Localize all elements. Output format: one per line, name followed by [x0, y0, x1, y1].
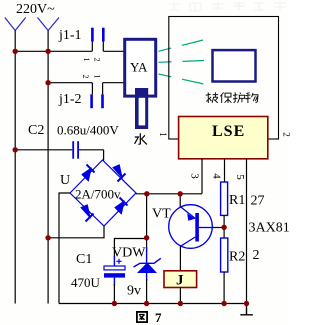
relay contact j1-1 plates — [91, 28, 105, 42]
resistor R2 — [221, 238, 228, 272]
wire LSE pin 4 — [224, 159, 226, 182]
svg-text:R1: R1 — [229, 193, 245, 208]
node + rail / VT emitter — [178, 191, 183, 196]
bridge diode bottom-right — [115, 198, 128, 215]
bridge diode bottom-left — [81, 205, 94, 222]
node right rail / j1-1 wire — [45, 49, 50, 54]
wire left AC rail x=15 — [14, 31, 16, 304]
svg-text:4: 4 — [210, 173, 222, 179]
svg-text:0.68u/400V: 0.68u/400V — [57, 123, 119, 138]
svg-text:J: J — [176, 273, 184, 289]
node right rail / AC bottom wire — [45, 235, 50, 240]
node J / ground rail — [178, 301, 183, 306]
zener diode VDW — [134, 247, 161, 281]
wire zener bottom — [146, 279, 148, 304]
svg-text:VT: VT — [152, 207, 171, 222]
bridge rectifier U diamond — [70, 160, 136, 226]
node VT base / divider — [221, 225, 226, 230]
AC plug prong left — [5, 18, 26, 31]
wire j1-2 row — [48, 83, 123, 95]
svg-text:LSE: LSE — [212, 123, 245, 140]
svg-text:j1-2: j1-2 — [58, 92, 82, 107]
svg-text:3: 3 — [188, 173, 200, 179]
svg-text:R2: R2 — [229, 250, 245, 265]
svg-text:2: 2 — [281, 132, 291, 137]
wire right AC rail x=48 — [47, 31, 49, 304]
wire bridge right corner (+ rail) — [136, 193, 202, 195]
node zener / ground rail — [144, 301, 149, 306]
label 水 (water) — [135, 133, 147, 144]
svg-text:YA: YA — [130, 60, 148, 75]
svg-text:U: U — [60, 173, 70, 188]
svg-text:470U: 470U — [71, 275, 101, 290]
caption 图 7 — [137, 310, 162, 325]
wire j1-1 row — [15, 42, 123, 52]
wire bridge left corner to ground rail — [59, 193, 70, 304]
wire R2 bottom — [223, 272, 225, 304]
ground symbol — [240, 304, 253, 315]
svg-text:1: 1 — [93, 75, 102, 79]
relay contact j1-2 plates — [90, 94, 103, 108]
AC plug prong right — [38, 18, 60, 31]
transistor VT — [169, 205, 214, 249]
node R2 / ground rail — [221, 301, 226, 306]
solenoid valve YA box — [125, 39, 156, 96]
svg-text:C2: C2 — [28, 123, 44, 138]
resistor R1 — [221, 182, 228, 215]
svg-text:C1: C1 — [76, 252, 92, 267]
svg-text:27: 27 — [251, 194, 265, 209]
control module LSE box — [179, 117, 268, 159]
svg-text:1: 1 — [82, 58, 91, 62]
ground bottom rail — [59, 303, 247, 305]
wire VT emitter top — [179, 194, 181, 208]
wire R1 bottom to junction — [223, 215, 225, 238]
bridge diode top-right — [113, 165, 126, 182]
node right rail / j1-2 wire — [45, 80, 50, 85]
node left rail / j1-1 wire — [13, 49, 18, 54]
wire C1 branch top — [114, 239, 146, 260]
svg-text:220V~: 220V~ — [16, 2, 55, 17]
svg-text:3AX81: 3AX81 — [249, 221, 290, 236]
bridge diode top-left — [82, 165, 95, 182]
svg-text:5: 5 — [234, 174, 246, 180]
svg-text:VDW: VDW — [112, 246, 146, 261]
protected object box 被保护物 — [213, 50, 256, 81]
svg-text:2: 2 — [93, 58, 102, 62]
svg-text:1: 1 — [158, 132, 168, 137]
relay coil J box — [164, 271, 197, 288]
svg-text:2A/700v: 2A/700v — [75, 187, 121, 202]
wire bridge bottom corner to AC rail — [48, 226, 104, 238]
spray line bottom — [159, 74, 205, 84]
wire C1 bottom — [113, 284, 115, 304]
svg-text:2: 2 — [253, 248, 260, 263]
node zener / C1 branch — [144, 235, 149, 240]
wire VT base to divider — [213, 227, 224, 229]
wire J bottom — [179, 288, 181, 304]
wire zener branch — [146, 194, 148, 252]
wire VT collector down — [179, 247, 181, 272]
capacitor C1 (electrolytic) — [104, 256, 125, 286]
spray line middle — [159, 61, 205, 63]
node ground symbol — [244, 301, 249, 306]
node C1 / ground rail — [112, 301, 117, 306]
svg-text:j1-1: j1-1 — [58, 28, 82, 43]
protected area enclosure box — [169, 17, 279, 140]
wire LSE pin 5 to ground — [246, 159, 248, 304]
solenoid valve YA nozzle — [135, 88, 148, 129]
svg-text:2: 2 — [81, 75, 90, 79]
svg-text:7: 7 — [155, 310, 162, 325]
node + rail / zener branch — [144, 191, 149, 196]
svg-text:9v: 9v — [127, 284, 141, 299]
spray line top — [159, 40, 206, 52]
wire C2 row — [15, 150, 103, 161]
capacitor C2 — [72, 141, 79, 159]
watermark 实用电子制作 (faint) — [168, 2, 286, 11]
node left rail / C2 wire — [13, 147, 18, 152]
wire LSE pin 3 — [201, 159, 203, 194]
label 被保护物 — [206, 92, 258, 103]
